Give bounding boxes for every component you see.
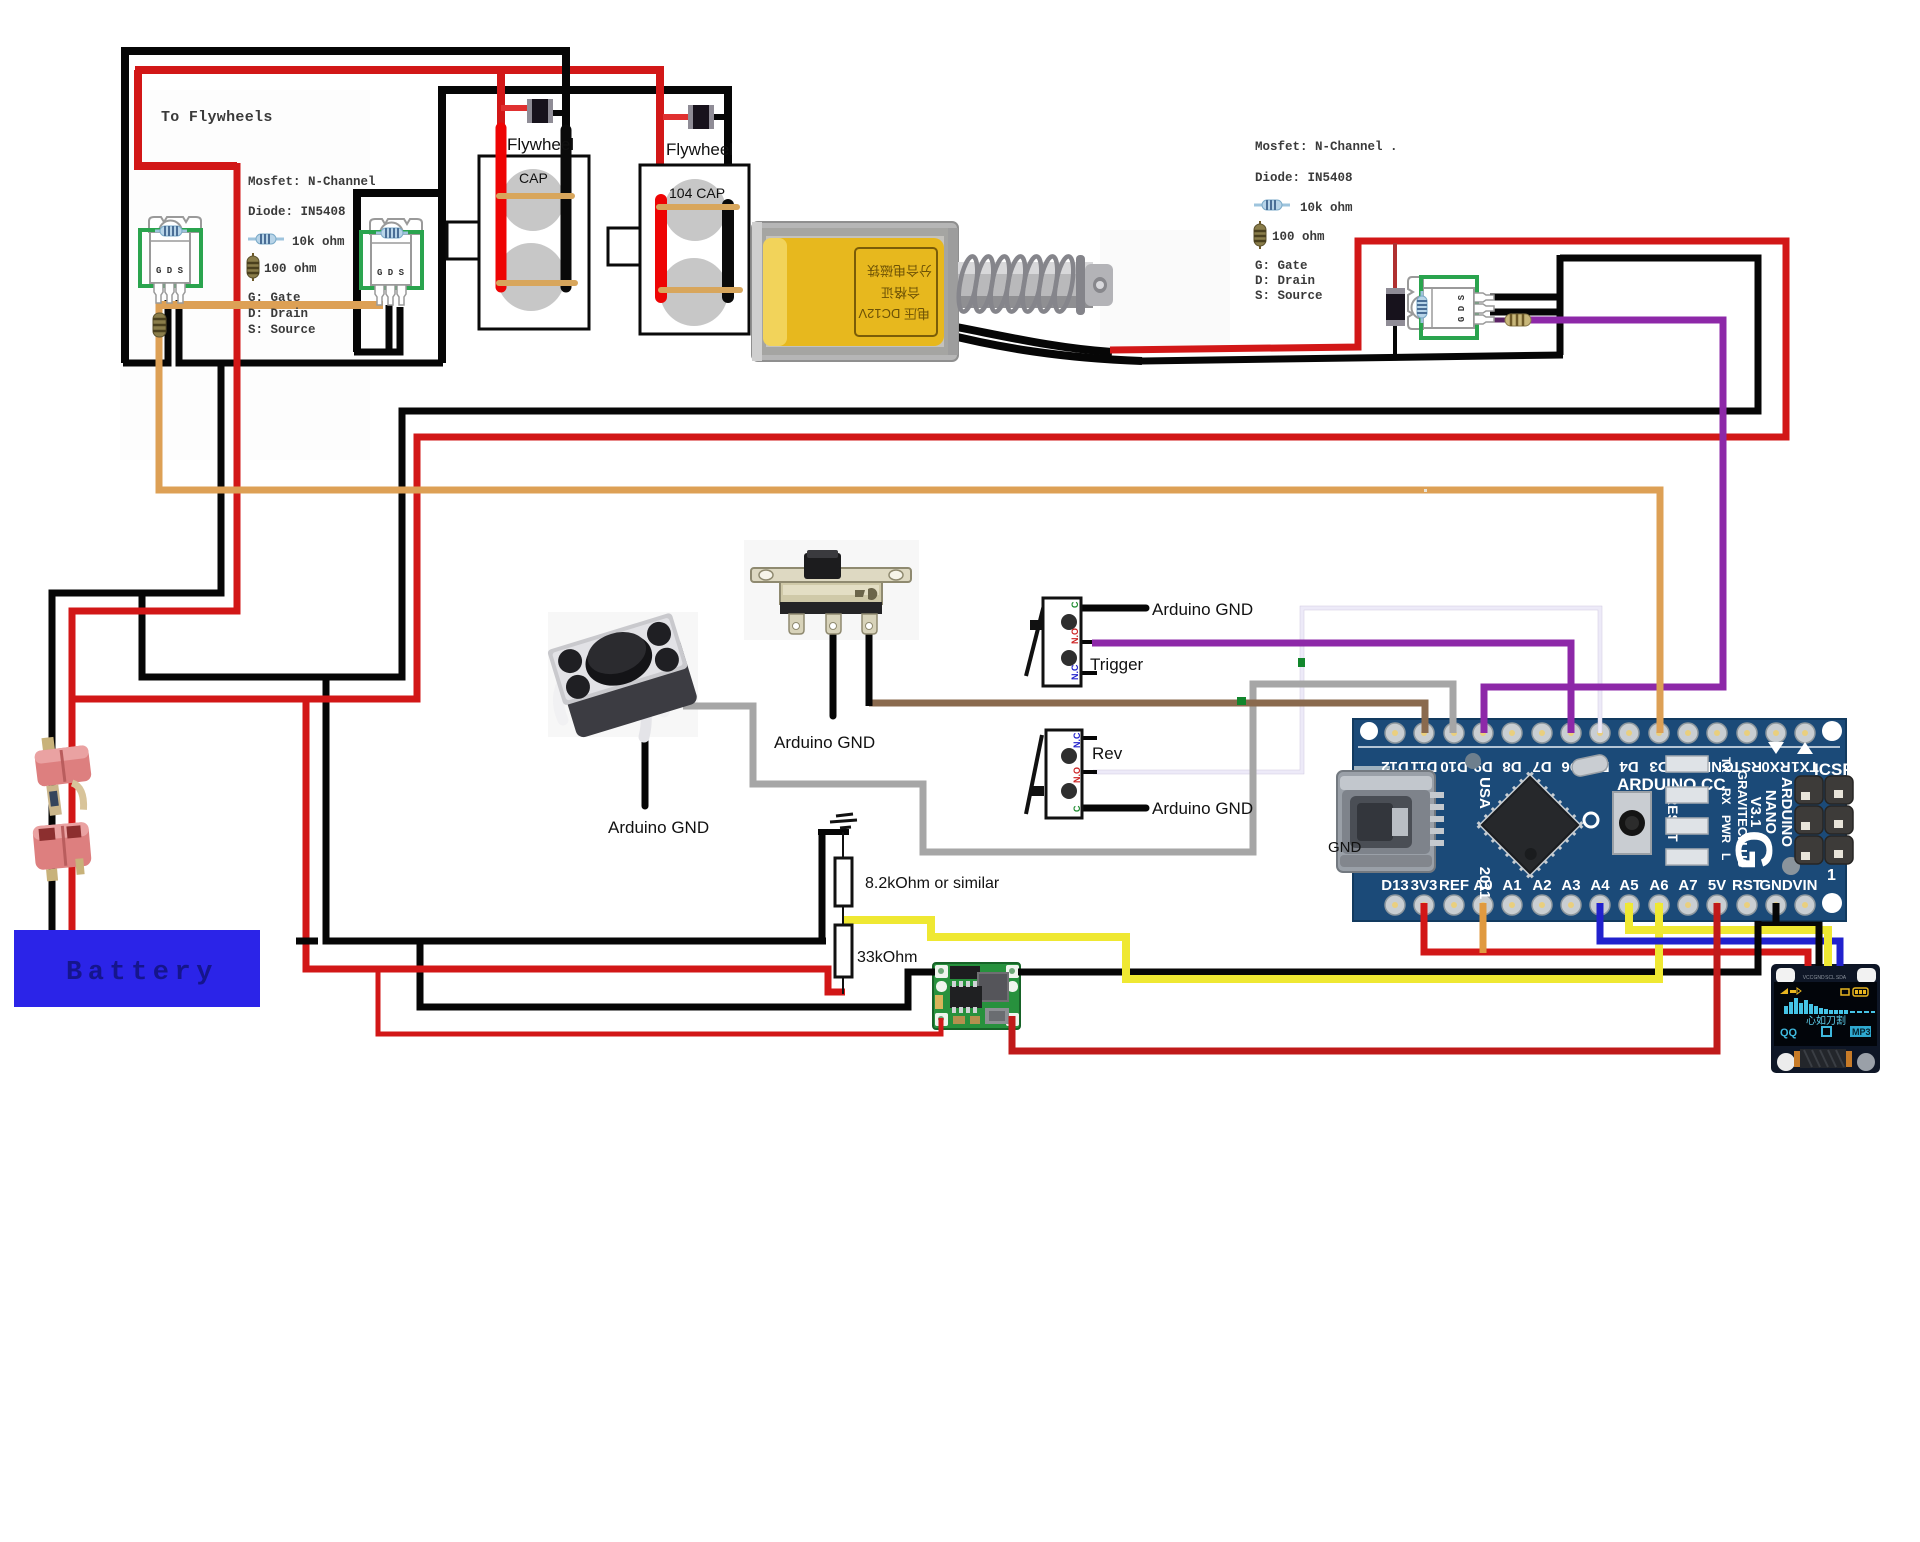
svg-text:A4: A4 — [1590, 877, 1610, 894]
svg-text:Flywheel: Flywheel — [666, 140, 733, 159]
svg-text:D7: D7 — [1532, 758, 1551, 775]
svg-text:N.O: N.O — [1072, 767, 1082, 783]
svg-text:SDA: SDA — [1836, 975, 1847, 981]
svg-text:VCC: VCC — [1803, 975, 1814, 981]
svg-text:G D S: G D S — [1457, 294, 1467, 322]
svg-text:MP3: MP3 — [1852, 1027, 1871, 1037]
svg-text:Rev: Rev — [1092, 744, 1123, 763]
svg-text:G: Gate: G: Gate — [1255, 259, 1308, 273]
svg-text:心如刀割: 心如刀割 — [1806, 1014, 1846, 1027]
svg-text:Mosfet: N-Channel: Mosfet: N-Channel — [248, 175, 376, 189]
svg-text:10k ohm: 10k ohm — [1300, 201, 1353, 215]
svg-text:100 ohm: 100 ohm — [264, 262, 317, 276]
svg-text:2011: 2011 — [1476, 867, 1493, 900]
svg-text:Flywheel: Flywheel — [507, 135, 574, 154]
svg-text:104 CAP: 104 CAP — [669, 185, 725, 201]
svg-text:D4: D4 — [1619, 758, 1639, 775]
svg-text:N.C: N.C — [1070, 664, 1080, 680]
svg-text:RX0: RX0 — [1761, 758, 1790, 775]
svg-text:CAP: CAP — [519, 170, 548, 186]
svg-text:D: Drain: D: Drain — [248, 307, 308, 321]
svg-text:GND: GND — [1813, 975, 1825, 981]
svg-text:TX: TX — [1719, 757, 1733, 772]
svg-text:To Flywheels: To Flywheels — [161, 109, 273, 126]
svg-text:33kOhm: 33kOhm — [857, 949, 917, 966]
svg-text:A5: A5 — [1619, 877, 1638, 894]
svg-text:D13: D13 — [1381, 877, 1409, 894]
svg-text:分合电磁铁: 分合电磁铁 — [867, 263, 932, 278]
svg-text:C: C — [1070, 601, 1080, 608]
svg-text:D10: D10 — [1440, 758, 1468, 775]
svg-text:10k ohm: 10k ohm — [292, 235, 345, 249]
svg-text:A1: A1 — [1502, 877, 1521, 894]
svg-text:D: Drain: D: Drain — [1255, 274, 1315, 288]
svg-text:S: Source: S: Source — [1255, 289, 1323, 303]
svg-text:RX: RX — [1719, 788, 1733, 805]
svg-text:Arduino GND: Arduino GND — [1152, 600, 1253, 619]
svg-text:Arduino GND: Arduino GND — [774, 733, 875, 752]
svg-text:REF: REF — [1439, 877, 1469, 894]
svg-text:Mosfet: N-Channel .: Mosfet: N-Channel . — [1255, 140, 1398, 154]
svg-text:QQ: QQ — [1780, 1027, 1798, 1039]
svg-text:USA: USA — [1476, 777, 1493, 809]
svg-text:合格证: 合格证 — [881, 285, 920, 300]
svg-text:D8: D8 — [1502, 758, 1521, 775]
svg-text:VIN: VIN — [1792, 877, 1817, 894]
svg-text:GND: GND — [1328, 839, 1362, 856]
svg-text:Battery: Battery — [66, 958, 218, 988]
svg-text:8.2kOhm or similar: 8.2kOhm or similar — [865, 875, 1000, 892]
svg-text:N.O: N.O — [1070, 628, 1080, 644]
svg-text:G: G — [1724, 830, 1782, 870]
svg-text:G D S: G D S — [156, 266, 184, 276]
svg-text:V3.1: V3.1 — [1747, 797, 1764, 828]
svg-text:SCL: SCL — [1825, 975, 1835, 981]
svg-text:Diode: IN5408: Diode: IN5408 — [248, 205, 346, 219]
svg-text:A3: A3 — [1561, 877, 1580, 894]
svg-text:G D S: G D S — [377, 268, 405, 278]
svg-text:N.C: N.C — [1072, 732, 1082, 748]
svg-text:Trigger: Trigger — [1090, 655, 1144, 674]
svg-text:ARDUINO: ARDUINO — [1778, 777, 1795, 847]
svg-text:1: 1 — [1827, 867, 1836, 884]
svg-text:Arduino GND: Arduino GND — [1152, 799, 1253, 818]
svg-text:Arduino GND: Arduino GND — [608, 818, 709, 837]
svg-text:5V: 5V — [1708, 877, 1726, 894]
svg-text:A6: A6 — [1649, 877, 1668, 894]
svg-text:3V3: 3V3 — [1411, 877, 1438, 894]
svg-text:S: Source: S: Source — [248, 323, 316, 337]
svg-text:100 ohm: 100 ohm — [1272, 230, 1325, 244]
svg-text:Diode: IN5408: Diode: IN5408 — [1255, 171, 1353, 185]
svg-text:GND: GND — [1759, 877, 1793, 894]
svg-text:RST: RST — [1732, 877, 1762, 894]
svg-text:A2: A2 — [1532, 877, 1551, 894]
svg-text:G: Gate: G: Gate — [248, 291, 301, 305]
svg-text:C: C — [1072, 805, 1082, 812]
svg-text:电压 DC12V: 电压 DC12V — [858, 306, 930, 321]
svg-text:A7: A7 — [1678, 877, 1697, 894]
